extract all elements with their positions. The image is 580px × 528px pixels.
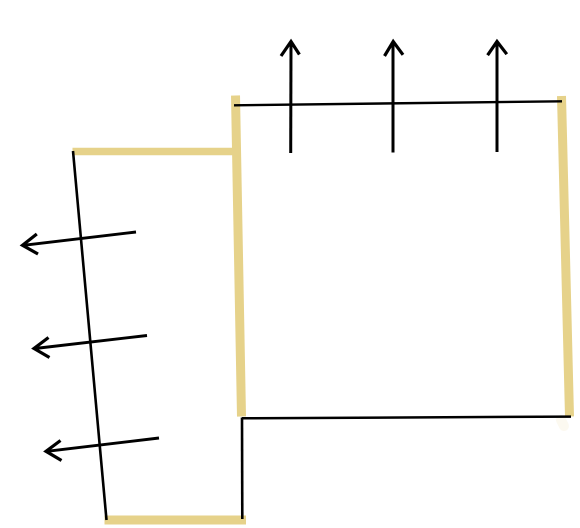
up arrow 3 head (488, 42, 507, 56)
left plate top edge (tan marker) (73, 148, 241, 156)
up arrow 3 stem (496, 42, 499, 152)
up arrow 1 stem (289, 42, 292, 153)
left arrow 3 head (46, 441, 62, 461)
up arrow 2 stem (392, 42, 395, 153)
left arrow 2 shaft (35, 336, 147, 349)
right plate bottom edge (black line) (242, 417, 571, 419)
left plate lower right edge (black line) (241, 418, 244, 520)
left plate bottom edge (tan marker) (105, 516, 247, 525)
left plate left edge (black line) (73, 151, 107, 520)
left arrow 1 shaft (24, 232, 137, 245)
up arrow 1 head (281, 42, 299, 57)
faint marker smudge below bottom-right corner (561, 420, 564, 426)
right plate right edge (tan marker) (562, 96, 570, 417)
left arrow 2 head (34, 338, 50, 358)
up arrow 2 head (385, 42, 404, 57)
right plate top edge (black line) (234, 101, 562, 105)
left arrow 3 shaft (47, 438, 159, 451)
left arrow 1 head (23, 234, 39, 254)
right plate left edge (tan marker) (236, 96, 242, 417)
